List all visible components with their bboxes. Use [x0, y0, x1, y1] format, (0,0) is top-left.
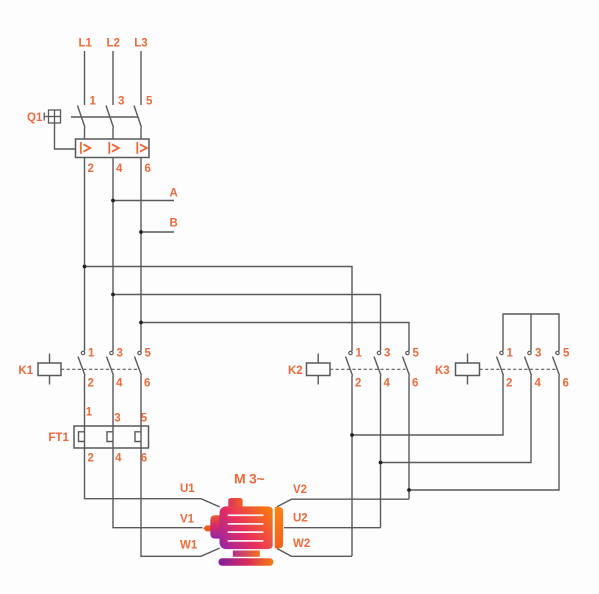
K3 pole 3 contact — [556, 351, 559, 354]
svg-text:6: 6 — [141, 453, 147, 465]
contactor K3 — [456, 314, 560, 385]
svg-text:W1: W1 — [180, 540, 198, 552]
K2 pole 2 contact — [377, 351, 380, 354]
svg-text:2: 2 — [88, 378, 94, 390]
wire branch3 to K2 pole5 — [141, 323, 409, 352]
node V2/K3 junction — [407, 488, 411, 492]
svg-text:V2: V2 — [293, 484, 307, 496]
wire K1 pole2 to FT1 — [112, 376, 114, 427]
svg-text:4: 4 — [535, 378, 542, 390]
motor bearing bump — [210, 515, 220, 538]
K3 pole 2 contact — [528, 351, 531, 354]
svg-text:1: 1 — [356, 348, 363, 360]
svg-text:2: 2 — [506, 378, 512, 390]
svg-text:4: 4 — [384, 378, 391, 390]
wire K3 pole6 down — [409, 376, 559, 491]
wire phase1 Q1 to K1 — [84, 158, 86, 352]
svg-text:3: 3 — [114, 413, 120, 425]
svg-text:3: 3 — [535, 348, 541, 360]
Q1 actuator cross box — [49, 110, 61, 123]
svg-text:U2: U2 — [293, 513, 308, 525]
motor body — [220, 506, 275, 549]
K3 coil — [467, 354, 469, 364]
svg-text:M 3~: M 3~ — [234, 471, 264, 487]
motor M1 icon — [203, 498, 283, 566]
motor base — [219, 558, 274, 566]
Q1 trip unit box — [76, 139, 150, 158]
svg-text:L3: L3 — [134, 38, 147, 50]
svg-text:1: 1 — [90, 96, 97, 108]
svg-text:6: 6 — [144, 378, 150, 390]
K3 star bridge bar — [503, 314, 559, 351]
Q1 linkage line — [71, 116, 139, 118]
wire Q1 pole1 to box — [84, 128, 86, 140]
K1 coil — [49, 354, 51, 364]
motor junction box — [228, 498, 242, 508]
motor pedestal — [233, 551, 260, 557]
node branch1 — [83, 265, 87, 269]
svg-text:U1: U1 — [180, 483, 195, 495]
svg-text:5: 5 — [146, 96, 153, 108]
wire Q1 pole3 to box — [140, 128, 142, 140]
svg-text:2: 2 — [355, 378, 361, 390]
wire K2 pole2 down to W2 — [351, 376, 353, 557]
node U2/K3 junction — [379, 461, 383, 465]
svg-text:4: 4 — [116, 163, 123, 175]
Q1 pole 3 blade — [134, 106, 142, 128]
wire K1 pole1 to FT1 — [84, 376, 86, 427]
contactor K1 — [38, 351, 142, 384]
svg-text:1: 1 — [88, 348, 95, 360]
K1 pole 3 contact — [138, 351, 141, 354]
Q1 pole 2 blade — [106, 106, 114, 128]
svg-text:W2: W2 — [293, 538, 310, 550]
wire K2 pole4 down to U2 — [380, 376, 382, 528]
svg-text:2: 2 — [88, 163, 94, 175]
wire Q1 pole2 to box — [112, 128, 114, 140]
svg-text:3: 3 — [384, 348, 390, 360]
wire K2 pole6 down to V2 — [408, 376, 410, 500]
wire U2 to motor — [284, 527, 381, 529]
K2 pole 3 contact — [406, 351, 409, 354]
K2 linkage dashed — [330, 368, 406, 370]
svg-text:K2: K2 — [288, 365, 303, 377]
wire L1 drop — [84, 51, 86, 105]
svg-text:5: 5 — [413, 348, 420, 360]
breaker Q1 — [44, 106, 149, 158]
K1 pole 1 contact — [81, 351, 84, 354]
svg-text:V1: V1 — [180, 514, 195, 526]
motor body/cap slit — [273, 506, 275, 550]
svg-text:L1: L1 — [78, 38, 92, 50]
svg-text:6: 6 — [412, 378, 418, 390]
wire node A tap — [113, 200, 174, 202]
Q1 pole 1 blade — [78, 106, 86, 128]
K1 pole 2 contact — [110, 351, 113, 354]
wire K3 pole2 down — [352, 376, 503, 436]
contactor K2 — [307, 351, 410, 384]
wire Q1 actuator to box — [55, 123, 76, 149]
FT1 heater 1 — [84, 426, 86, 448]
node W2/K3 junction — [350, 433, 354, 437]
K3 pole 1 contact — [500, 351, 503, 354]
FT1 heater 2 — [112, 426, 114, 448]
wire phase2 Q1 to K1 — [112, 158, 114, 352]
motor end cap — [275, 507, 283, 548]
overload relay FT1 — [74, 426, 149, 448]
wire V2 to motor — [277, 499, 409, 507]
K1 linkage dashed — [61, 368, 138, 370]
svg-text:L2: L2 — [106, 38, 119, 50]
svg-text:5: 5 — [141, 413, 148, 425]
node branch2 — [111, 293, 115, 297]
svg-text:3: 3 — [118, 96, 124, 108]
svg-text:Q1: Q1 — [27, 112, 43, 124]
svg-text:6: 6 — [145, 163, 151, 175]
svg-text:5: 5 — [563, 348, 570, 360]
FT1 heater 3 — [140, 426, 142, 448]
svg-text:3: 3 — [117, 348, 123, 360]
Q1 trip symbols |> — [80, 142, 138, 154]
K2 coil — [317, 354, 319, 364]
wire FT1 pole2 to V1 — [113, 448, 203, 528]
wire K1 pole3 to FT1 — [140, 376, 142, 427]
motor stripes — [228, 514, 264, 541]
wire node B tap — [141, 231, 174, 233]
svg-text:A: A — [170, 188, 178, 200]
wire branch1 to K2 pole1 — [85, 267, 353, 352]
svg-text:6: 6 — [563, 378, 569, 390]
svg-text:1: 1 — [86, 407, 93, 419]
svg-text:2: 2 — [88, 453, 94, 465]
wire L2 drop — [112, 51, 114, 105]
wire FT1 pole3 to W1 — [141, 448, 220, 556]
svg-text:5: 5 — [145, 348, 152, 360]
svg-text:4: 4 — [115, 453, 122, 465]
svg-text:K1: K1 — [18, 365, 33, 377]
svg-text:1: 1 — [507, 348, 514, 360]
motor shaft arrow — [203, 525, 210, 531]
wire W2 to motor — [277, 549, 352, 557]
node A — [111, 199, 115, 203]
svg-text:4: 4 — [116, 378, 123, 390]
K2 pole 1 contact — [349, 351, 352, 354]
wire L3 drop — [140, 51, 142, 105]
svg-text:B: B — [170, 218, 178, 230]
svg-text:K3: K3 — [435, 365, 450, 377]
node B — [139, 230, 143, 234]
svg-text:FT1: FT1 — [48, 432, 69, 444]
node branch3 — [139, 321, 143, 325]
wire FT1 pole1 to U1 — [85, 448, 220, 507]
K3 linkage dashed — [480, 368, 557, 370]
wire K3 pole4 down — [381, 376, 532, 463]
wire phase3 Q1 to K1 — [140, 158, 142, 352]
wire branch2 to K2 pole3 — [113, 295, 381, 352]
